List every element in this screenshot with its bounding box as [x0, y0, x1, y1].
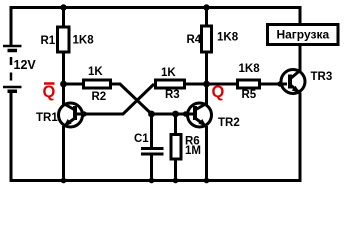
svg-text:R2: R2: [92, 91, 107, 103]
svg-text:R5: R5: [242, 89, 257, 101]
svg-text:1K: 1K: [88, 66, 103, 78]
svg-text:Q: Q: [212, 83, 225, 101]
svg-text:TR1: TR1: [36, 112, 58, 124]
svg-text:C1: C1: [134, 133, 149, 145]
svg-text:1K8: 1K8: [73, 35, 95, 47]
svg-text:R1: R1: [41, 35, 56, 47]
svg-text:R4: R4: [187, 34, 202, 46]
svg-text:TR3: TR3: [311, 71, 333, 83]
svg-text:Q: Q: [43, 83, 56, 101]
svg-text:R3: R3: [165, 89, 180, 101]
svg-text:Нагрузка: Нагрузка: [276, 28, 329, 42]
svg-text:1K8: 1K8: [239, 63, 261, 75]
svg-text:1M: 1M: [185, 145, 201, 157]
svg-text:1K8: 1K8: [217, 32, 239, 44]
svg-text:TR2: TR2: [218, 117, 240, 129]
svg-text:1K: 1K: [161, 67, 176, 79]
svg-text:12V: 12V: [14, 58, 37, 72]
